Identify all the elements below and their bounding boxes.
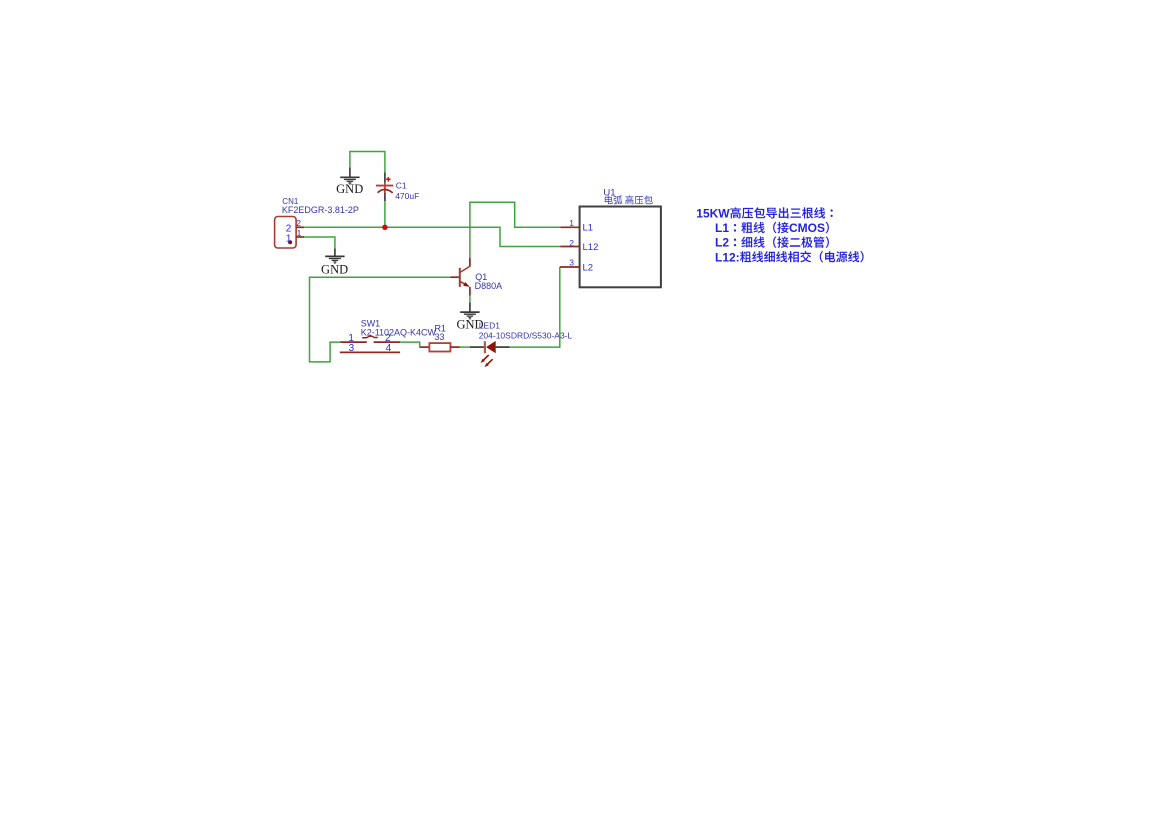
- wire C1 to bus: [384, 201, 386, 227]
- svg-text:1: 1: [297, 228, 302, 238]
- note line 1: [696, 207, 832, 221]
- IC U1 high-voltage pack: [560, 207, 661, 288]
- ground GND1: [336, 167, 363, 196]
- svg-text:L1: L1: [583, 223, 594, 234]
- LED LED1: [470, 341, 510, 367]
- transistor Q1: [451, 258, 471, 296]
- svg-text:2: 2: [296, 218, 301, 228]
- wire R1 to LED1: [460, 346, 470, 348]
- note line 4: [715, 250, 864, 264]
- wire LED1 to U1 pin3: [510, 267, 560, 347]
- wire C1 top loop to GND: [350, 152, 385, 173]
- wire SW1 to R1: [400, 342, 421, 347]
- svg-text:L2: L2: [583, 262, 594, 273]
- svg-text:K2-1102AQ-K4CW: K2-1102AQ-K4CW: [361, 327, 437, 337]
- ground GND2: [321, 248, 348, 276]
- svg-text:LED1: LED1: [479, 320, 501, 330]
- resistor R1: [420, 343, 460, 351]
- svg-text:D880A: D880A: [475, 281, 503, 291]
- svg-text:15KW: 15KW: [696, 207, 730, 221]
- svg-text:33: 33: [434, 332, 444, 342]
- svg-text:3: 3: [569, 258, 574, 268]
- svg-text:L12: L12: [583, 242, 599, 253]
- svg-text:204-10SDRD/S530-A3-L: 204-10SDRD/S530-A3-L: [479, 331, 573, 341]
- node junction at C1/bus: [382, 225, 387, 230]
- svg-text:GND: GND: [336, 182, 363, 196]
- svg-text:KF2EDGR-3.81-2P: KF2EDGR-3.81-2P: [282, 205, 359, 215]
- note line 2: [715, 221, 829, 235]
- wire main bus to U1 pin2: [304, 227, 560, 246]
- capacitor C1: [376, 172, 394, 201]
- label U1 Chinese name: [605, 196, 653, 205]
- svg-text:470uF: 470uF: [395, 191, 419, 201]
- svg-text:C1: C1: [396, 180, 407, 190]
- svg-text:CMOS: CMOS: [789, 221, 825, 235]
- connector CN1: [275, 217, 305, 249]
- wire CN1 pin1 to GND2: [304, 237, 335, 248]
- svg-text:3: 3: [349, 343, 355, 354]
- wire Q1 base to SW1: [310, 277, 451, 362]
- svg-text:L2: L2: [715, 236, 729, 250]
- wire Q1 emitter to GND3: [469, 296, 471, 303]
- svg-text:1: 1: [569, 218, 574, 228]
- svg-text:4: 4: [386, 343, 392, 354]
- svg-text:L1: L1: [715, 221, 729, 235]
- svg-text:1: 1: [286, 233, 292, 244]
- switch SW1: [340, 336, 400, 352]
- note line 3: [715, 236, 829, 250]
- svg-text:2: 2: [569, 238, 574, 248]
- svg-text:GND: GND: [321, 262, 348, 276]
- wire Q1 collector to U1 pin1: [470, 202, 560, 257]
- svg-text:U1: U1: [603, 187, 615, 198]
- ground GND3: [456, 302, 483, 331]
- svg-text:L12:: L12:: [715, 250, 740, 264]
